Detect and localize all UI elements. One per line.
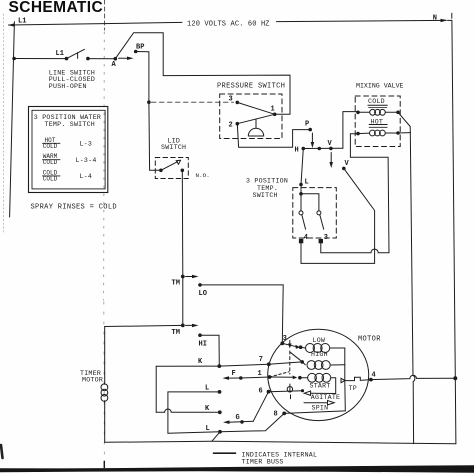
wire TM to timer motor (105, 325, 183, 326)
wire top feeder right segment with N arrow (277, 13, 452, 22)
node HI (198, 333, 202, 337)
svg-text:4: 4 (372, 372, 376, 380)
svg-text:H: H (295, 147, 299, 155)
node L2 junction (299, 192, 303, 196)
svg-text:L-3-4: L-3-4 (76, 157, 97, 164)
svg-text:MIXING VALVE: MIXING VALVE (356, 82, 404, 89)
legend internal timer buss (214, 452, 236, 454)
cold solenoid (368, 98, 385, 105)
temp switch left contact (299, 211, 303, 215)
table row cold/cold (43, 169, 92, 182)
fold line (scan crease) (104, 0, 105, 462)
wire 1 to START (270, 376, 294, 378)
svg-text:PRESSURE SWITCH: PRESSURE SWITCH (217, 83, 285, 91)
svg-text:1: 1 (271, 106, 275, 114)
svg-text:COLD: COLD (43, 159, 58, 166)
wire V up to cold valve (343, 112, 357, 149)
svg-text:7: 7 (259, 356, 263, 364)
winding common rail (344, 348, 347, 411)
svg-text:INDICATES INTERNAL: INDICATES INTERNAL (242, 451, 318, 458)
dashed link 1 to selector (270, 372, 290, 377)
svg-text:G: G (236, 414, 240, 422)
wire rail to motor 8 (284, 411, 345, 414)
svg-text:MOTOR: MOTOR (358, 336, 381, 344)
svg-text:HI: HI (199, 341, 207, 349)
wire LO to motor 3 (200, 285, 283, 344)
svg-text:SPRAY RINSES = COLD: SPRAY RINSES = COLD (31, 203, 117, 211)
wire BP down to lid switch (136, 52, 161, 171)
svg-text:8: 8 (274, 411, 278, 419)
svg-text:N.O.: N.O. (196, 172, 210, 179)
svg-text:120 VOLTS AC. 60 HZ: 120 VOLTS AC. 60 HZ (187, 21, 270, 29)
svg-text:MOTOR: MOTOR (82, 377, 103, 384)
node TM lower (181, 324, 185, 328)
SPIN buss arrow (304, 402, 328, 404)
node V (329, 147, 333, 151)
svg-text:L: L (305, 179, 309, 187)
svg-text:L1: L1 (18, 18, 26, 26)
table row warm/cold (43, 153, 97, 166)
timer buss G arrow (223, 420, 230, 424)
blade H to L temp switch (301, 149, 303, 185)
timer buss F arrow (223, 376, 230, 380)
wire HI to K row (200, 335, 219, 366)
svg-text:LOW: LOW (313, 337, 326, 344)
centrifugal switch symbol (287, 387, 292, 392)
blade link to HIGH (290, 352, 301, 361)
timer buss arrow from V down (330, 153, 332, 164)
timer buss arrow from P down (311, 133, 313, 144)
pressure switch blade 3-1 (237, 102, 274, 114)
svg-text:3: 3 (324, 234, 328, 242)
svg-text:TIMER BUSS: TIMER BUSS (242, 459, 284, 466)
svg-text:3: 3 (283, 335, 287, 343)
wire pressure 2 to node P (237, 124, 310, 148)
rail B (167, 392, 169, 433)
scan bar bottom (103, 461, 105, 467)
START winding (300, 377, 308, 379)
motor terminal 6 (267, 390, 271, 394)
pressure switch blade 2-1 (237, 114, 274, 123)
motor terminal 3 (280, 342, 284, 346)
wire K to motor 7 (219, 364, 268, 366)
svg-text:SWITCH: SWITCH (253, 192, 278, 199)
motor circle (268, 329, 369, 420)
lid switch (161, 137, 186, 151)
svg-text:BP: BP (136, 44, 144, 52)
node L temp switch (299, 183, 303, 187)
svg-text:1: 1 (258, 370, 262, 378)
motor terminal 8 (282, 412, 286, 416)
svg-text:TM: TM (172, 280, 180, 288)
speed selector small down arrow (289, 341, 291, 345)
TP contact triangle (341, 378, 345, 382)
node junction L1/line-switch (12, 57, 16, 61)
svg-text:TP: TP (349, 385, 357, 392)
wire F to motor 1 (241, 377, 270, 378)
svg-text:L-3: L-3 (80, 141, 93, 148)
pressure switch terminal 3 (236, 101, 240, 105)
wire L row to motor 8 (220, 413, 284, 431)
svg-text:6: 6 (259, 388, 263, 396)
motor terminal 4 (369, 378, 373, 382)
terminal 3 (319, 239, 323, 243)
blade 3 to LOW (282, 343, 296, 346)
node TM upper (181, 275, 185, 279)
wire terminal 4 to V' (301, 168, 375, 263)
motor terminal 1 (268, 375, 272, 379)
wire N bus right side (448, 20, 456, 443)
node mid dot (318, 147, 322, 151)
svg-text:COLD: COLD (368, 98, 385, 105)
wire terminal 3 to hot valve (hop over) (321, 134, 389, 253)
temp switch right contact (317, 211, 321, 215)
temp switch dashed box (293, 188, 337, 238)
switch SW1 line switch (56, 49, 90, 60)
svg-text:SCHEMATIC: SCHEMATIC (9, 0, 104, 16)
wire L branch to right contact (301, 194, 319, 211)
pressure switch terminal 1 (273, 113, 277, 117)
node V' (342, 167, 346, 171)
svg-text:AGITATE: AGITATE (311, 394, 340, 401)
water temp table box (29, 107, 108, 193)
svg-text:SWITCH: SWITCH (161, 144, 186, 151)
dashed mechanical link (289, 351, 291, 374)
wire G to motor 6 (253, 392, 268, 422)
svg-text:3 POSITION: 3 POSITION (246, 178, 288, 185)
AGITATE buss arrow (304, 391, 310, 395)
svg-text:COLD: COLD (43, 175, 58, 182)
wire TM down (182, 277, 184, 326)
svg-text:2: 2 (229, 122, 233, 130)
svg-text:TEMP. SWITCH: TEMP. SWITCH (45, 121, 95, 128)
hot solenoid (371, 119, 384, 126)
svg-text:4: 4 (304, 234, 308, 242)
wire L1 top feeder with left arrow (8, 18, 182, 27)
svg-text:3: 3 (229, 96, 233, 104)
wire switch to node A (88, 58, 115, 60)
wire valve returns to N bottom (398, 112, 410, 132)
scan artifacts left edge (2, 14, 4, 232)
svg-text:LO: LO (199, 290, 207, 298)
wire 4 to N bus with hop (371, 375, 455, 379)
wire L1 bus left side (10, 22, 15, 217)
wire junction to pressure switch 3 (faint) (152, 101, 234, 103)
wire timer return bottom (105, 441, 456, 444)
svg-text:L-4: L-4 (80, 173, 93, 180)
node LO (198, 283, 202, 287)
wire A up-over to pressure switch terminal 1 (115, 33, 290, 115)
wire lid switch down to TM (181, 170, 184, 276)
pressure switch diaphragm dome (248, 120, 263, 136)
svg-text:L: L (205, 385, 209, 393)
svg-text:F: F (232, 370, 236, 378)
motor terminal 7 (267, 362, 271, 366)
node BP/pressure junction (147, 100, 151, 104)
svg-text:HIGH: HIGH (311, 351, 328, 358)
wire L down to left contact (300, 185, 302, 211)
svg-text:TM: TM (172, 329, 180, 337)
TP thermal protector jog (345, 377, 369, 380)
svg-text:PUSH-OPEN: PUSH-OPEN (49, 83, 87, 90)
svg-text:TEMP.: TEMP. (257, 185, 278, 192)
terminal 4 (299, 239, 303, 243)
svg-text:COLD: COLD (43, 143, 58, 150)
pressure switch terminal 2 (236, 122, 240, 126)
node P (308, 128, 312, 132)
wire jog up to L row (212, 432, 220, 441)
node H (302, 147, 306, 151)
node BP (134, 50, 138, 54)
svg-text:L1: L1 (56, 50, 64, 58)
label 3 position temp switch (246, 178, 288, 200)
svg-text:SPIN: SPIN (312, 405, 329, 412)
table row hot/cold (43, 137, 92, 150)
wire bus to line switch (14, 58, 66, 60)
label line switch (49, 70, 95, 90)
wire H to V row (303, 147, 343, 149)
svg-text:P: P (305, 121, 309, 129)
rail A (155, 366, 157, 412)
timer motor (80, 370, 103, 384)
svg-text:START: START (310, 383, 331, 390)
node A (114, 57, 118, 61)
svg-text:N: N (433, 14, 437, 22)
